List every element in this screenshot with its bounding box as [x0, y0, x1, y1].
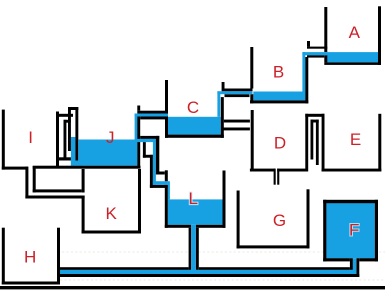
tank J bottom floor line	[33, 166, 141, 169]
C outlet stub	[137, 106, 140, 111]
tank G bottom	[237, 245, 310, 248]
J outlet inner wall vertical 1	[143, 142, 146, 158]
B outlet stub	[222, 82, 225, 89]
tank C water	[168, 117, 221, 135]
tank G right wall	[307, 189, 310, 248]
F drain water	[353, 258, 356, 274]
tank H bottom	[2, 282, 60, 285]
J outlet outer wall	[156, 136, 159, 172]
D-E siphon outer left leg	[305, 114, 308, 172]
J chamber water column	[71, 137, 76, 166]
I right wall	[56, 112, 59, 169]
tank A right wall	[378, 6, 381, 65]
svg-text:I: I	[28, 128, 33, 147]
C to D pocket upper line	[224, 120, 250, 123]
J outlet water strip	[136, 139, 156, 142]
bottom pipe top line right segment	[199, 267, 350, 270]
C to D pocket lower line	[223, 128, 250, 131]
C outlet water	[135, 114, 168, 117]
tank L left wall upper	[165, 170, 168, 181]
tank L left wall lower	[165, 185, 168, 228]
tank H left wall	[2, 228, 5, 285]
I drain right wall	[33, 166, 36, 192]
bottom pipe bottom line	[60, 274, 359, 277]
tank F top line	[323, 200, 378, 203]
I drain channel bottom line	[25, 196, 84, 199]
tank K bottom	[82, 231, 141, 234]
C outlet top wall	[137, 111, 165, 114]
J outlet jog bar	[156, 172, 165, 175]
svg-text:B: B	[273, 62, 284, 81]
waterfall A to B	[302, 52, 305, 91]
tank C right wall	[221, 97, 224, 138]
J outlet elbow bottom	[150, 185, 168, 188]
C outlet bottom wall	[140, 117, 165, 120]
tank D left wall	[251, 110, 254, 172]
tank L bottom left part	[165, 225, 191, 228]
svg-text:E: E	[350, 130, 361, 149]
J chamber left leg	[68, 107, 71, 151]
tank K left wall lower	[82, 196, 85, 234]
tank C left wall	[165, 80, 168, 138]
svg-text:H: H	[24, 248, 36, 267]
svg-text:L: L	[188, 189, 197, 208]
tank F bottom right part	[359, 258, 378, 261]
bottom pipe top line left segment	[60, 267, 189, 270]
tank J right wall	[137, 117, 140, 167]
I-J tube outer top bar	[56, 114, 73, 117]
A outlet stub	[307, 41, 310, 47]
A outlet bottom wall	[307, 55, 324, 57]
tank B water	[253, 92, 305, 101]
tank K right wall	[138, 169, 141, 234]
faint dotted guide line	[62, 251, 385, 253]
I-J tube bottom bar	[57, 157, 71, 160]
L drain water	[191, 225, 196, 274]
tank B right wall	[305, 57, 308, 103]
L drain right wall	[196, 228, 199, 270]
B outlet water	[217, 91, 252, 94]
F drain right wall	[356, 258, 359, 277]
tank D bottom right part	[277, 169, 306, 172]
J outlet elbow water	[153, 181, 168, 185]
J outlet downpipe water	[153, 140, 156, 185]
B outlet bottom wall	[225, 94, 250, 97]
tank C bottom	[165, 135, 224, 138]
waterfall B to C	[217, 91, 220, 117]
tank H right wall	[57, 228, 60, 285]
svg-text:F: F	[349, 221, 359, 240]
J outlet inner bar	[143, 155, 153, 158]
I-J tube inner top bar	[64, 120, 71, 123]
faint dotted guide line 2	[60, 279, 385, 281]
I drain left wall	[25, 167, 28, 199]
tank B bottom	[250, 100, 308, 103]
D-E siphon inner right leg	[316, 120, 319, 165]
F drain left wall	[350, 258, 353, 270]
D-E siphon inner left leg	[311, 120, 314, 160]
D drain right stub	[277, 169, 279, 185]
svg-text:G: G	[273, 211, 286, 230]
I-J tube inner leg	[64, 120, 67, 160]
bottom pipe water	[60, 270, 356, 274]
J left wall	[75, 107, 78, 161]
D-E siphon outer right leg	[322, 114, 325, 172]
D drain left stub	[274, 169, 276, 185]
tank J water	[78, 140, 137, 166]
A outlet spout top wall	[307, 47, 327, 49]
tank F right wall	[375, 200, 378, 262]
tank D bottom left part	[250, 169, 275, 172]
tank I left wall	[2, 110, 5, 170]
L drain left wall	[189, 228, 192, 270]
tank L bottom right part	[196, 225, 226, 228]
svg-text:K: K	[106, 204, 118, 223]
tank E bottom	[322, 169, 382, 172]
svg-text:C: C	[187, 98, 199, 117]
J outlet top bar	[140, 136, 159, 139]
tank L water	[168, 199, 223, 224]
stream into L	[168, 181, 170, 199]
I drain channel top line	[33, 189, 82, 192]
tank F left wall	[323, 200, 326, 262]
tank K left wall upper	[82, 169, 85, 193]
A outlet water	[302, 52, 327, 55]
J outlet inner wall vertical 2	[150, 155, 153, 188]
J chamber top bar	[68, 107, 78, 110]
waterfall C to J	[135, 114, 138, 140]
tank G left wall	[237, 191, 240, 249]
tank F water	[326, 203, 374, 258]
tank A left wall	[324, 7, 327, 52]
svg-text:D: D	[274, 134, 286, 153]
J chamber under-wall water	[71, 161, 82, 166]
tank A water	[327, 52, 378, 62]
D-E siphon inner top bar	[311, 120, 319, 123]
svg-text:J: J	[106, 128, 115, 147]
B outlet top wall	[222, 89, 253, 92]
tank L right wall	[223, 171, 226, 228]
D-E siphon outer top bar	[305, 114, 324, 117]
tank I bottom	[2, 167, 28, 170]
svg-text:A: A	[349, 23, 361, 42]
tank E right wall	[378, 114, 381, 172]
ground line across page bottom	[0, 286, 385, 289]
tank A bottom	[324, 62, 381, 65]
tank B left wall	[250, 47, 253, 89]
tank F bottom left part	[323, 258, 350, 261]
